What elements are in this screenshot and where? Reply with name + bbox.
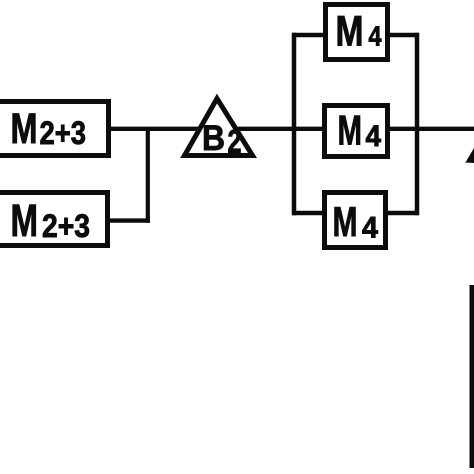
vertical edge of cut-off element at lower right image edge [470,285,474,468]
corner of next amplifier triangle, cut off at right image edge [465,148,474,163]
wire: parallel-branch left vertical bus [292,33,297,215]
svg-text:B: B [202,118,225,158]
svg-text:4: 4 [362,212,379,245]
svg-text:M: M [11,105,38,153]
amplifier triangle B2 [185,99,253,160]
block M4 (middle) [325,106,388,157]
svg-text:M: M [336,8,364,56]
block M2+3 (bottom), left side cut off by image edge [0,193,108,247]
svg-text:2: 2 [228,123,242,159]
wire: main signal line from M2+3 output through B2 to right edge [106,127,474,131]
block M4 (top) [326,5,388,60]
block M4 (bottom) [325,193,386,248]
wire: bottom M2+3 output stub [107,218,150,222]
wire: parallel-branch right vertical bus [415,33,420,215]
block M2+3 (top), left side cut off by image edge [0,102,109,156]
svg-text:2+3: 2+3 [42,208,90,244]
wire: top branch to upper M4 [292,33,419,37]
svg-text:4: 4 [369,21,383,52]
svg-text:M: M [338,107,363,154]
svg-text:4: 4 [366,120,382,153]
svg-text:2+3: 2+3 [40,115,87,151]
wire: vertical connector from bottom M2+3 up to main line [146,127,150,223]
wire: bottom branch to lower M4 [292,211,419,215]
svg-text:M: M [333,198,358,245]
svg-text:M: M [11,195,39,246]
